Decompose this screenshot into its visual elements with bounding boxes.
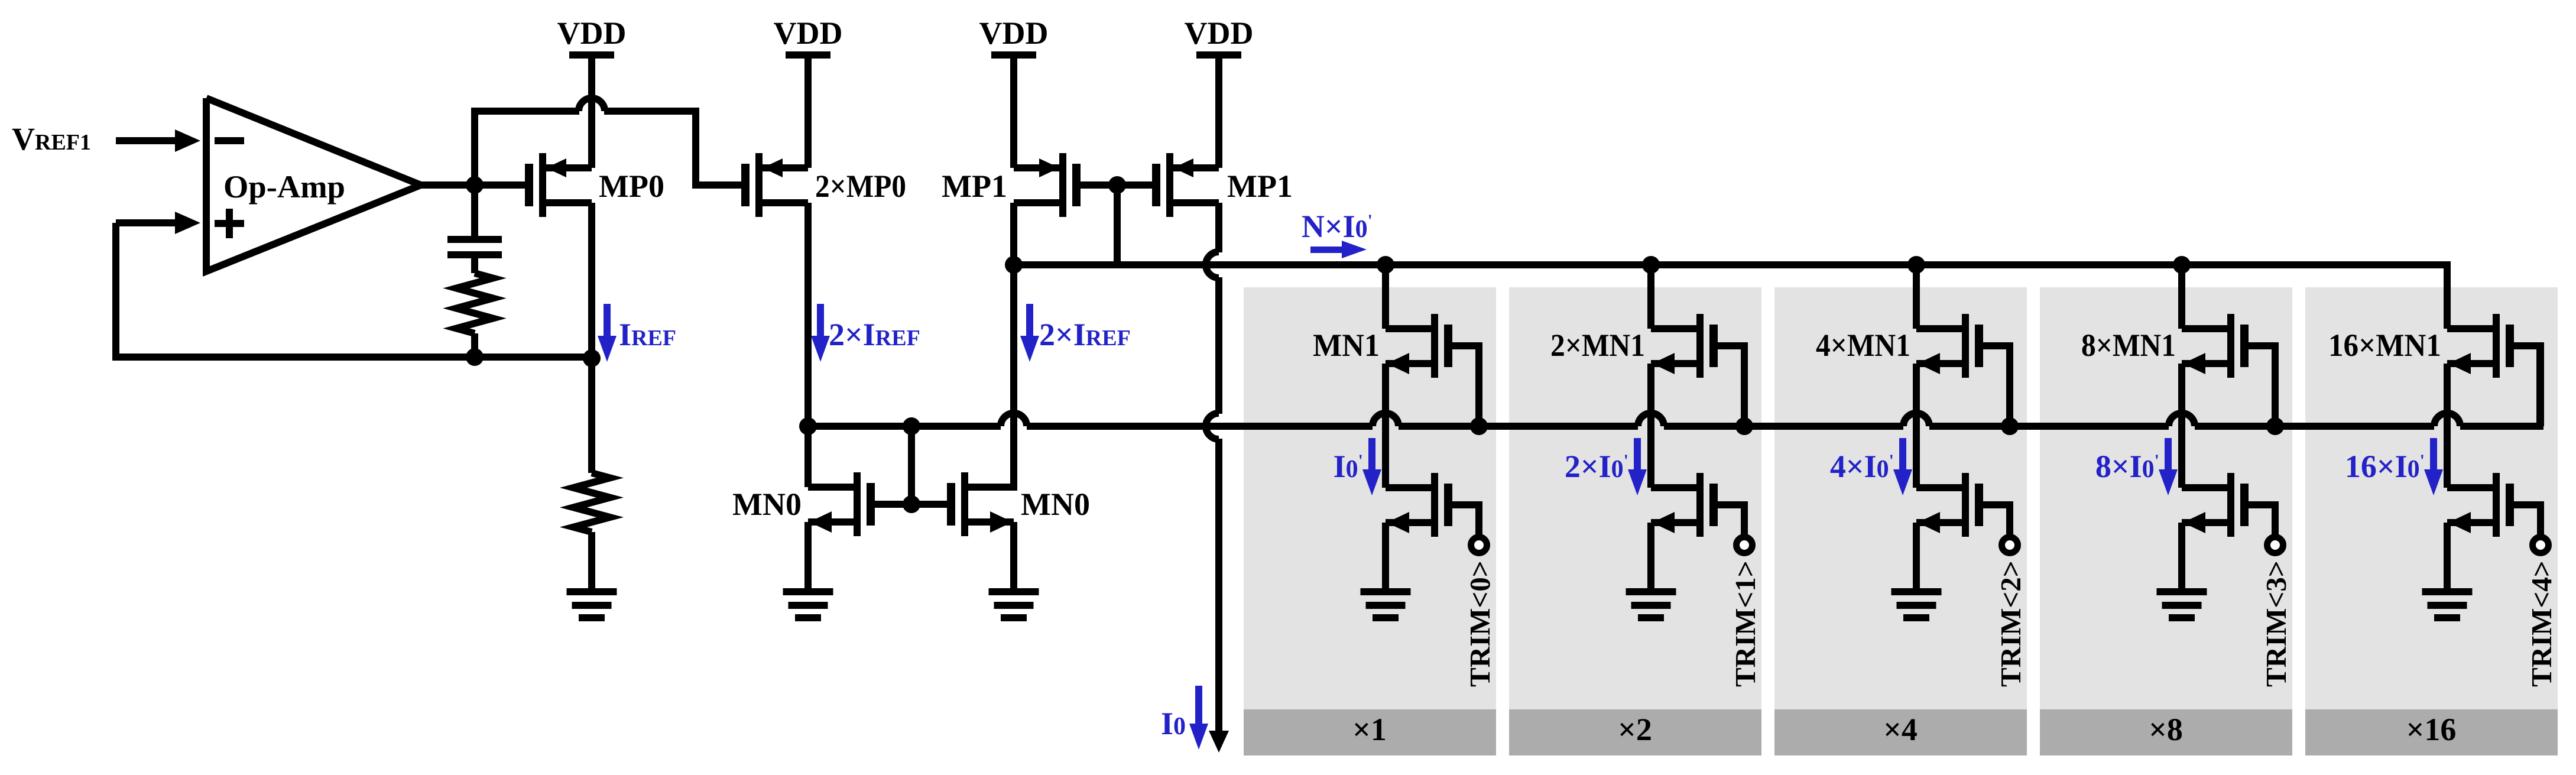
- node junction branch 3 gate / rail B: [2266, 417, 2284, 435]
- power VDD symbol for left MP1: [979, 15, 1049, 59]
- trim cell 2 weight label: [1883, 712, 1918, 747]
- svg-text:MN1: MN1: [1313, 327, 1380, 363]
- wire branch 1 switch gate to TRIM terminal: [1715, 505, 1744, 536]
- terminal TRIM<4> label: [2525, 560, 2558, 687]
- current label IREF (blue): [619, 317, 676, 352]
- current label 2xIREF left (blue): [829, 317, 920, 352]
- transistor branch 1 trim switch: [1651, 473, 1718, 537]
- transistor branch 3 trim switch: [2182, 473, 2249, 537]
- current label branch 4 (blue): [2345, 449, 2425, 484]
- node junction rail A at 2xIREF column: [1005, 256, 1023, 274]
- ground branch 1: [1626, 588, 1676, 621]
- svg-text:×2: ×2: [1618, 712, 1652, 747]
- terminal TRIM<3> label: [2260, 560, 2292, 687]
- wire branch 4 switch source to ground: [2444, 523, 2451, 591]
- wire branch 1 cascode source down to switch: [1647, 364, 1654, 488]
- transistor branch 1 cascode label: [1550, 327, 1645, 363]
- node junction rail A branch 0: [1377, 256, 1394, 274]
- svg-text:8×MN1: 8×MN1: [2081, 327, 2176, 363]
- ground under right MN0: [989, 588, 1039, 621]
- node junction branch 0 gate / rail B: [1470, 417, 1488, 435]
- trim cell 0 weight label: [1352, 712, 1387, 747]
- current arrow 2xIREF right (blue): [1020, 304, 1039, 362]
- wire branch 4 cascode drain arm: [2447, 325, 2493, 332]
- transistor branch 4 trim switch: [2447, 473, 2514, 537]
- wire rail A down to MN1 branch 1 drain: [1647, 265, 1654, 329]
- wire branch 3 switch gate to TRIM terminal: [2246, 505, 2275, 536]
- wire branch 0 cascode drain arm: [1386, 325, 1431, 332]
- current arrow 8xI0' (blue): [2159, 438, 2178, 495]
- wire left MP1 drain down to right MN0 drain: [1010, 203, 1017, 491]
- ground under left MN0: [783, 588, 833, 621]
- transistor 4xMN1 (cascode): [1916, 314, 1983, 378]
- current arrow 16xI0' (blue): [2424, 438, 2443, 495]
- transistor 2xMP0: [741, 153, 808, 217]
- node VREF1 input wire with arrow: [116, 129, 200, 152]
- svg-text:4×MN1: 4×MN1: [1816, 327, 1910, 363]
- wire VDD to 2xMP0 source: [804, 57, 812, 168]
- terminal TRIM<0> circle: [1471, 537, 1487, 553]
- transistor 2xMP0 label: [815, 168, 906, 204]
- current arrow 4xI0' (blue): [1893, 438, 1912, 495]
- wire branch 3 cascode drain arm: [2182, 325, 2227, 332]
- svg-text:MP0: MP0: [599, 168, 664, 204]
- node junction MN0 gates / rail B: [903, 417, 920, 435]
- svg-text:×4: ×4: [1883, 712, 1918, 747]
- svg-text:16×MN1: 16×MN1: [2328, 327, 2441, 363]
- node junction branch 2 gate / rail B: [2001, 417, 2019, 435]
- svg-text:TRIM<1>: TRIM<1>: [1729, 560, 1761, 687]
- current arrow IREF (blue): [598, 304, 617, 362]
- current label NxI0' (blue): [1302, 209, 1373, 244]
- svg-text:TRIM<4>: TRIM<4>: [2525, 560, 2558, 687]
- node junction branch 1 gate / rail B: [1735, 417, 1753, 435]
- ground under R2: [567, 588, 617, 621]
- current arrow NxI0' right (blue): [1310, 241, 1367, 258]
- transistor MP0 label: [599, 168, 664, 204]
- svg-text:2×MP0: 2×MP0: [815, 168, 906, 204]
- svg-text:VDD: VDD: [1185, 15, 1254, 51]
- wire MP1 gates down to NxI0 rail: [1114, 185, 1121, 265]
- svg-text:Op-Amp: Op-Amp: [223, 169, 345, 205]
- terminal TRIM<4> circle: [2533, 537, 2549, 553]
- ground branch 0: [1361, 588, 1411, 621]
- wire op-amp plus input with arrow: [116, 212, 200, 234]
- transistor MP1 (right): [1152, 153, 1219, 217]
- wire right MN0 source to ground: [1010, 522, 1017, 591]
- terminal TRIM<2> label: [1994, 560, 2027, 687]
- trim cell 3 background box: [2040, 287, 2292, 755]
- wire branch 2 cascode source down to switch: [1913, 364, 1920, 488]
- transistor branch 2 cascode label: [1816, 327, 1910, 363]
- power VDD symbol for 2xMP0: [774, 15, 843, 59]
- terminal TRIM<3> circle: [2267, 537, 2283, 553]
- wire op-amp output up and over to 2xMP0 gate: [475, 111, 746, 185]
- wire NxI0 rail (MN1 drains): [1014, 265, 2447, 329]
- terminal TRIM<1> circle: [1737, 537, 1753, 553]
- transistor MP1 (left): [1014, 153, 1081, 217]
- transistor MN0 left label: [732, 487, 802, 522]
- node junction rail A branch 3: [2173, 256, 2191, 274]
- wire VDD to MP0 source: [588, 57, 595, 168]
- wire MP1 gate tie: [1079, 181, 1156, 189]
- current arrow 2xIREF left (blue): [811, 304, 830, 362]
- trim cell 1 weight label: [1618, 712, 1652, 747]
- transistor 16xMN1 (cascode): [2447, 314, 2514, 378]
- wire branch 4 switch drain arm: [2447, 484, 2493, 491]
- wire branch 1 cascode drain arm: [1651, 325, 1696, 332]
- node IREF junction: [583, 349, 601, 367]
- current arrow 2xI0' (blue): [1628, 438, 1647, 495]
- wire branch 0 switch source to ground: [1382, 523, 1389, 591]
- current label branch 3 (blue): [2095, 449, 2159, 484]
- wire branch 3 switch drain arm: [2182, 484, 2227, 491]
- node junction 2xMP0 drain / rail B: [799, 417, 817, 435]
- capacitor C1 (compensation): [447, 185, 502, 273]
- node op-amp output junction: [466, 176, 484, 194]
- wire rail A down to MN1 branch 0 drain: [1382, 265, 1389, 329]
- svg-text:MN0: MN0: [1021, 487, 1090, 522]
- ground branch 4: [2422, 588, 2473, 621]
- terminal TRIM<1> label: [1729, 560, 1761, 687]
- svg-text:TRIM<3>: TRIM<3>: [2260, 560, 2292, 687]
- transistor MN0 (left): [808, 472, 875, 536]
- wire branch 0 switch gate to TRIM terminal: [1449, 505, 1479, 536]
- wire branch 1 cascode gate to bias rail: [1715, 346, 1744, 426]
- trim cell 2 background box: [1774, 287, 2027, 755]
- svg-text:×8: ×8: [2149, 712, 2183, 747]
- transistor MP1 left label: [942, 168, 1007, 204]
- transistor MP0: [525, 153, 592, 217]
- terminal TRIM<2> circle: [2002, 537, 2018, 553]
- transistor MP1 right label: [1227, 168, 1293, 204]
- wire feedback loop left/bottom: [116, 223, 592, 357]
- svg-text:MN0: MN0: [732, 487, 802, 522]
- wire branch 2 cascode gate to bias rail: [1980, 346, 2010, 426]
- wire MN0 gate tie horizontal: [872, 501, 952, 508]
- resistor R2 (IREF setting): [573, 358, 610, 591]
- trim cell 0 background box: [1244, 287, 1496, 755]
- transistor 2xMN1 (cascode): [1651, 314, 1718, 378]
- current arrow I0' (blue): [1362, 438, 1381, 495]
- op-amp U1: [206, 98, 421, 271]
- wire branch 2 switch drain arm: [1916, 484, 1962, 491]
- svg-text:VDD: VDD: [557, 15, 627, 51]
- wire branch 0 cascode gate to bias rail: [1449, 346, 1479, 426]
- node MP1 gate junction: [1108, 176, 1126, 194]
- wire branch 4 switch gate to TRIM terminal: [2511, 505, 2541, 536]
- wire branch 4 cascode source down to switch: [2444, 364, 2451, 488]
- wire VDD to left MP1 source: [1010, 57, 1017, 168]
- wire branch 3 cascode source down to switch: [2178, 364, 2185, 488]
- node VREF1 label: [12, 121, 91, 157]
- transistor branch 0 cascode label: [1313, 327, 1380, 363]
- wire branch 0 switch drain arm: [1386, 484, 1431, 491]
- svg-text:VDD: VDD: [774, 15, 843, 51]
- wire branch 1 switch source to ground: [1647, 523, 1654, 591]
- ground branch 3: [2157, 588, 2207, 621]
- power VDD symbol for MP0: [557, 15, 627, 59]
- ground branch 2: [1892, 588, 1942, 621]
- wire left MN0 source to ground: [804, 522, 812, 591]
- wire left MN0 drain up: [804, 426, 812, 487]
- node junction rail A branch 2: [1907, 256, 1925, 274]
- wire branch 2 cascode drain arm: [1916, 325, 1962, 332]
- transistor branch 4 cascode label: [2328, 327, 2441, 363]
- current label 2xIREF right (blue): [1039, 317, 1131, 352]
- wire cascode bias rail (MN0 gate line): [808, 346, 2540, 426]
- svg-text:MP1: MP1: [1227, 168, 1293, 204]
- wire branch 1 switch drain arm: [1651, 484, 1696, 491]
- wire VDD to right MP1 source: [1215, 57, 1222, 168]
- transistor branch 2 trim switch: [1916, 473, 1983, 537]
- trim cell 4 background box: [2305, 287, 2558, 755]
- wire MP0 drain down to IREF node: [588, 203, 595, 358]
- wire MN0 gate tie down: [908, 426, 915, 504]
- node MN0 gate tie junction: [903, 495, 920, 513]
- svg-text:TRIM<2>: TRIM<2>: [1994, 560, 2027, 687]
- current label branch 1 (blue): [1565, 449, 1628, 484]
- wire branch 2 switch source to ground: [1913, 523, 1920, 591]
- resistor R1 (compensation): [456, 273, 493, 357]
- transistor MN0 right label: [1021, 487, 1090, 522]
- node compensation bottom junction: [466, 348, 484, 366]
- svg-text:×16: ×16: [2406, 712, 2457, 747]
- node junction rail A branch 1: [1642, 256, 1660, 274]
- wire rail A down to MN1 branch 2 drain: [1913, 265, 1920, 329]
- svg-text:MP1: MP1: [942, 168, 1007, 204]
- trim cell 4 weight label: [2406, 712, 2457, 747]
- wire right MP1 drain down to I0 output (hops two rails): [1206, 203, 1229, 753]
- terminal TRIM<0> label: [1464, 560, 1496, 687]
- wire rail A down to MN1 branch 3 drain: [2178, 265, 2185, 329]
- current label branch 0 (blue): [1334, 449, 1363, 484]
- current label branch 2 (blue): [1830, 449, 1894, 484]
- wire 2xMP0 drain down to MN0 drain: [804, 203, 812, 430]
- power VDD symbol for right MP1: [1185, 15, 1254, 59]
- trim cell 3 weight label: [2149, 712, 2183, 747]
- svg-text:×1: ×1: [1352, 712, 1387, 747]
- wire branch 3 switch source to ground: [2178, 523, 2185, 591]
- wire branch 3 cascode gate to bias rail: [2246, 346, 2275, 426]
- svg-text:TRIM<0>: TRIM<0>: [1464, 560, 1496, 687]
- transistor 8xMN1 (cascode): [2182, 314, 2249, 378]
- transistor branch 3 cascode label: [2081, 327, 2176, 363]
- current arrow I0 (blue): [1189, 686, 1208, 750]
- wire branch 4 cascode gate to bias rail: [2511, 346, 2541, 426]
- wire op-amp output to MP0 gate: [417, 181, 526, 189]
- transistor MN1 (cascode): [1386, 314, 1452, 378]
- svg-text:2×MN1: 2×MN1: [1550, 327, 1645, 363]
- svg-text:VDD: VDD: [979, 15, 1049, 51]
- trim cell 1 background box: [1509, 287, 1761, 755]
- wire hop over VDD line at MP0: [579, 98, 605, 111]
- transistor branch 0 trim switch: [1386, 473, 1452, 537]
- transistor MN0 (right): [947, 472, 1014, 536]
- wire branch 0 cascode source down to switch: [1382, 364, 1389, 488]
- current label I0 (blue): [1161, 706, 1186, 741]
- wire branch 2 switch gate to TRIM terminal: [1980, 505, 2010, 536]
